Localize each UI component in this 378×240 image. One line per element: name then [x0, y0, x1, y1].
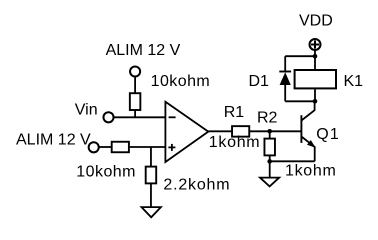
resistor 10kohm (left, to non-inverting input) [112, 142, 129, 153]
svg-text:1kohm: 1kohm [209, 134, 261, 151]
wire R1 to base node [249, 130, 301, 132]
wire terminal to resistor [134, 77, 136, 94]
ground (below R2 / emitter) [260, 178, 279, 187]
transistor Q1 emitter lead [301, 137, 314, 162]
svg-text:Q1: Q1 [316, 126, 340, 143]
terminal ALIM 12 V (left) [89, 142, 99, 152]
relay coil K1 [295, 70, 336, 88]
node base junction [267, 129, 272, 134]
wire junction to 2.2kohm resistor [150, 147, 152, 167]
svg-text:K1: K1 [344, 73, 364, 90]
wire resistor to Vin net [134, 110, 136, 117]
wire VDD to top node [314, 50, 316, 69]
wire op-amp output to R1 [208, 130, 232, 132]
wire top node to diode branch [285, 55, 315, 57]
wire diode branch upper [284, 56, 286, 71]
wire emitter node to ground [269, 161, 271, 177]
node bottom (relay/diode/collector) [313, 99, 318, 104]
wire bottom node to diode branch [285, 100, 315, 102]
op-amp inverting input marker [169, 116, 176, 118]
terminal ALIM 12 V (top) [130, 66, 140, 76]
svg-text:2.2kohm: 2.2kohm [163, 176, 230, 193]
wire resistor to op-amp non-inverting input [129, 146, 166, 148]
svg-text:ALIM 12 V: ALIM 12 V [16, 132, 91, 149]
op-amp non-inverting input marker [168, 144, 175, 151]
svg-text:Vin: Vin [75, 102, 98, 119]
resistor 2.2kohm [146, 167, 157, 184]
transistor Q1 collector lead [301, 101, 314, 120]
op-amp U1 [165, 102, 208, 162]
terminal Vin [103, 112, 113, 122]
node top (relay/diode/VDD) [313, 54, 318, 59]
wire base node to R2 [269, 131, 271, 138]
wire R2 to emitter node [269, 155, 271, 161]
resistor R1 [232, 126, 249, 136]
transistor Q1 emitter arrow [307, 140, 316, 148]
diode D1 cathode bar [279, 71, 291, 73]
wire resistor to ground [150, 183, 152, 206]
diode D1 triangle [280, 72, 291, 85]
svg-text:R2: R2 [257, 110, 278, 127]
ground (below 2.2kohm) [142, 207, 161, 217]
wire relay to bottom node [314, 89, 316, 101]
wire Vin to op-amp inverting input [113, 116, 165, 118]
transistor Q1 base bar [300, 115, 302, 143]
svg-text:VDD: VDD [299, 13, 333, 30]
svg-text:1kohm: 1kohm [285, 162, 337, 179]
node emitter junction [267, 159, 272, 164]
wire emitter to ground net [270, 160, 315, 162]
svg-text:R1: R1 [224, 104, 245, 121]
wire terminal to resistor [99, 146, 112, 148]
resistor R2 [264, 139, 275, 156]
resistor 10kohm (top, to inverting input) [130, 93, 141, 110]
svg-text:10kohm: 10kohm [151, 73, 211, 90]
svg-text:10kohm: 10kohm [76, 163, 136, 180]
wire diode branch lower [284, 85, 286, 101]
svg-text:ALIM 12 V: ALIM 12 V [106, 42, 181, 59]
svg-text:D1: D1 [249, 73, 270, 90]
terminal VDD (circle with plus) [310, 39, 321, 50]
